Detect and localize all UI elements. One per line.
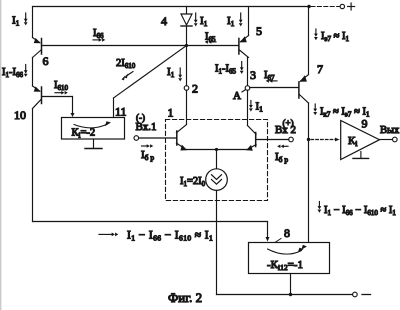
wire vertical into box 11 top right: [113, 98, 115, 118]
label Ik7 = Ie7 = I1: [313, 104, 370, 119]
svg-text:A: A: [233, 90, 241, 102]
ground below box 11: [85, 139, 102, 149]
junction dot emitters: [215, 148, 218, 151]
svg-text:7: 7: [317, 62, 323, 76]
junction dot at amp input tap: [307, 138, 310, 141]
scan edge left: [0, 0, 2, 310]
wire node 2 to VT1 collector: [186, 90, 188, 124]
transistor VT1 (NPN, left of diff pair): [176, 125, 187, 151]
svg-text:I1: I1: [167, 66, 175, 79]
label 8 with tick: [275, 226, 290, 242]
dashed arrow into amplifier 9: [311, 138, 340, 142]
label I1 above node 2: [167, 66, 182, 81]
label I6p left with arrow: [141, 144, 154, 162]
wire I67 node 3 to Q7 base: [250, 87, 299, 89]
svg-text:5: 5: [256, 24, 262, 38]
label I1 right of diode: [194, 13, 208, 28]
transistor Q7 (PNP) emitter wire from top rail: [308, 7, 310, 75]
svg-text:Iэ7 ≈ I1: Iэ7 ≈ I1: [321, 31, 350, 43]
transistor Q6 (PNP): [33, 38, 42, 58]
wire Q10 collector long left column down: [32, 109, 34, 222]
wire node 3 to VT2 collector: [247, 90, 249, 125]
wire bottom horizontal to box 8 input: [33, 221, 268, 223]
label I65 with arrow: [205, 32, 216, 44]
curved arrow inside box 11: [74, 121, 111, 128]
svg-text:Вх 2: Вх 2: [275, 124, 296, 136]
terminal output circle: [393, 137, 398, 142]
input terminal Vh.1: [134, 136, 139, 141]
node 2 circle: [184, 86, 189, 91]
wire drop with arrow into box 8: [266, 222, 270, 242]
ground at amp 9: [353, 152, 369, 159]
svg-text:8: 8: [284, 226, 290, 240]
node 3 circle (node A): [245, 86, 250, 91]
svg-text:1: 1: [168, 106, 174, 120]
output wire: [380, 139, 393, 141]
svg-text:Iб р: Iб р: [141, 149, 154, 162]
input terminal Vh 2: [289, 137, 294, 142]
svg-text:I1=2I0: I1=2I0: [180, 176, 206, 188]
transistor Q5 (PNP): [239, 36, 249, 58]
diode cathode wire: [186, 26, 188, 46]
junction dot bottom rail: [289, 293, 292, 296]
curved arrow inside box 8: [268, 245, 307, 254]
label I67 with arrow: [264, 70, 277, 83]
wire Q10 base to box 11 input: [42, 97, 75, 118]
main horizontal base wire y=46 (I66 / I65 line): [42, 45, 239, 47]
top supply rail wire: [33, 6, 310, 8]
wire box 8 bottom to negative rail: [290, 274, 292, 295]
current source I1=2I0: [206, 169, 228, 191]
svg-text:Вых: Вых: [380, 125, 400, 136]
svg-text:Фиг. 2: Фиг. 2: [168, 290, 202, 305]
label 2I610 with diagonal arrow: [116, 58, 136, 80]
top rail dashed segment to + terminal: [311, 6, 339, 8]
wire current source to bottom rail: [216, 190, 218, 294]
transistor Q7 (PNP): [299, 75, 309, 104]
svg-text:I1-I66: I1-I66: [2, 67, 24, 79]
label I1 left of Q5 emitter: [227, 13, 243, 28]
diagonal wire 2I610 from diode node to box 11: [114, 46, 187, 99]
wire between Q6 collector and Q10 emitter: [32, 58, 34, 87]
svg-text:I1 − I66 − I610 ≈ I1: I1 − I66 − I610 ≈ I1: [127, 230, 213, 243]
box 8 inverter -K=-1: [249, 243, 330, 274]
bottom negative rail wire: [217, 294, 353, 296]
wire Vh1 to VT1 base: [139, 137, 177, 139]
svg-text:I1: I1: [12, 15, 20, 28]
svg-text:I610: I610: [54, 80, 69, 92]
svg-text:10: 10: [14, 108, 26, 122]
wire diode node to node 2: [186, 46, 188, 86]
transistor Q10 (PNP): [33, 86, 42, 109]
svg-text:4: 4: [161, 14, 167, 28]
label I1 below node 3: [249, 101, 263, 114]
dashed box 1 differential stage: [166, 120, 268, 201]
svg-text:I1: I1: [200, 15, 208, 28]
svg-text:Вх.1: Вх.1: [136, 121, 157, 133]
svg-text:6: 6: [43, 54, 49, 68]
wire left column top (emitter lead of VT6): [32, 7, 34, 38]
svg-text:Iб р: Iб р: [275, 151, 288, 164]
label right I1-I66-I610 = I1: [318, 202, 397, 218]
wire Vh2 to VT2 base: [256, 139, 289, 141]
terminal - (negative supply): [353, 292, 358, 297]
svg-text:2I610: 2I610: [116, 58, 136, 70]
label I610 with arrow: [54, 80, 69, 95]
svg-text:I1: I1: [227, 15, 235, 28]
svg-text:Кi=-2: Кi=-2: [72, 128, 96, 140]
label I6p right with arrow: [275, 145, 288, 165]
label I66 with arrow: [93, 28, 105, 42]
svg-text:11: 11: [115, 105, 127, 119]
svg-text:3: 3: [250, 68, 256, 82]
svg-text:9: 9: [362, 117, 368, 131]
label I1 (top-left): [12, 13, 28, 28]
wire Q7 collector down to box 8: [308, 103, 310, 242]
junction dot at diode node: [185, 44, 188, 47]
label I1-I65: [215, 62, 244, 76]
svg-text:2: 2: [192, 82, 198, 96]
junction dot on top rail at transistor 7 emitter: [307, 5, 310, 8]
transistor Q5 (PNP) emitter wire: [248, 7, 250, 36]
svg-text:I66: I66: [93, 28, 104, 40]
wire Q5 collector to node 3: [247, 58, 249, 86]
svg-text:I67: I67: [264, 70, 275, 82]
label I1-I66: [2, 65, 28, 80]
wire to current source: [216, 150, 218, 169]
op-amp U9 triangle: [341, 121, 380, 160]
terminal + (positive supply): [340, 4, 344, 8]
box 11 current mirror Ki=-2: [62, 118, 125, 140]
label A with tick: [233, 90, 245, 102]
common emitter wire: [186, 149, 247, 151]
svg-text:I1 − I66 − I610 ≈ I1: I1 − I66 − I610 ≈ I1: [324, 205, 396, 217]
diode 4: [181, 14, 192, 26]
svg-text:I1-I65: I1-I65: [215, 64, 237, 76]
transistor VT2 (NPN, right of diff pair): [246, 126, 256, 151]
label Ie7 = I1: [314, 29, 350, 43]
diode 4 anode wire: [186, 7, 188, 15]
svg-text:I1: I1: [256, 101, 264, 114]
label bottom I1-I66-I610 = I1: [99, 230, 213, 243]
